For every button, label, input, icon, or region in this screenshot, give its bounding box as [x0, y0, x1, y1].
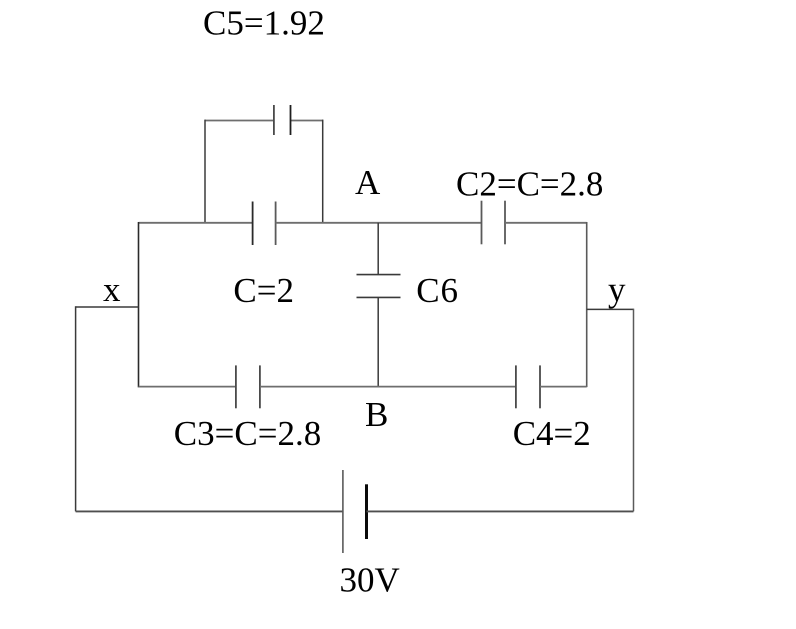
capacitor C3 [236, 365, 260, 408]
svg-text:x: x [103, 270, 121, 309]
wire bottom rail middle segment (C3 to C4 through node B) [260, 386, 516, 388]
wire C5 loop left vertical [204, 120, 206, 223]
battery B1 short thick plate [365, 484, 368, 539]
wire C6 upper vertical from node A [377, 223, 379, 275]
svg-text:C=2: C=2 [233, 271, 294, 310]
svg-text:A: A [355, 163, 381, 202]
capacitor C6 [357, 275, 401, 298]
wire right vertical of main loop [586, 222, 588, 387]
capacitor C1 (C=2) [253, 202, 276, 246]
capacitor C2 [482, 201, 506, 245]
svg-text:C3=C=2.8: C3=C=2.8 [174, 414, 321, 453]
wire outer right vertical [633, 309, 635, 512]
wire x terminal horizontal [76, 306, 139, 308]
wire bottom outer left segment (to battery) [76, 510, 343, 512]
capacitor C4 [516, 365, 540, 408]
svg-text:30V: 30V [340, 561, 400, 600]
wire outer left vertical [75, 306, 77, 511]
svg-text:C2=C=2.8: C2=C=2.8 [456, 165, 603, 204]
svg-text:C4=2: C4=2 [513, 414, 591, 453]
battery B1 long plate [342, 470, 344, 553]
wire C5 loop top-left segment [205, 120, 274, 122]
wire C6 lower vertical to node B [377, 298, 379, 387]
svg-text:y: y [608, 270, 626, 309]
wire y terminal horizontal [587, 308, 634, 310]
wire C5 loop top-right segment [291, 120, 323, 122]
wire top rail left segment (x-node side to C) [139, 222, 253, 224]
wire bottom rail left segment [139, 386, 236, 388]
capacitor C5 [274, 105, 291, 135]
svg-text:C6: C6 [416, 271, 458, 310]
wire C5 loop right vertical [322, 120, 324, 223]
wire top rail right segment (C2 to right corner) [505, 222, 587, 224]
wire left vertical of main loop [138, 222, 140, 387]
svg-text:C5=1.92: C5=1.92 [203, 4, 325, 43]
svg-text:B: B [365, 395, 388, 434]
wire top rail middle segment (C to C2 through node A) [276, 222, 482, 224]
wire bottom rail right segment [540, 386, 587, 388]
wire bottom outer right segment (battery to right) [367, 510, 634, 512]
